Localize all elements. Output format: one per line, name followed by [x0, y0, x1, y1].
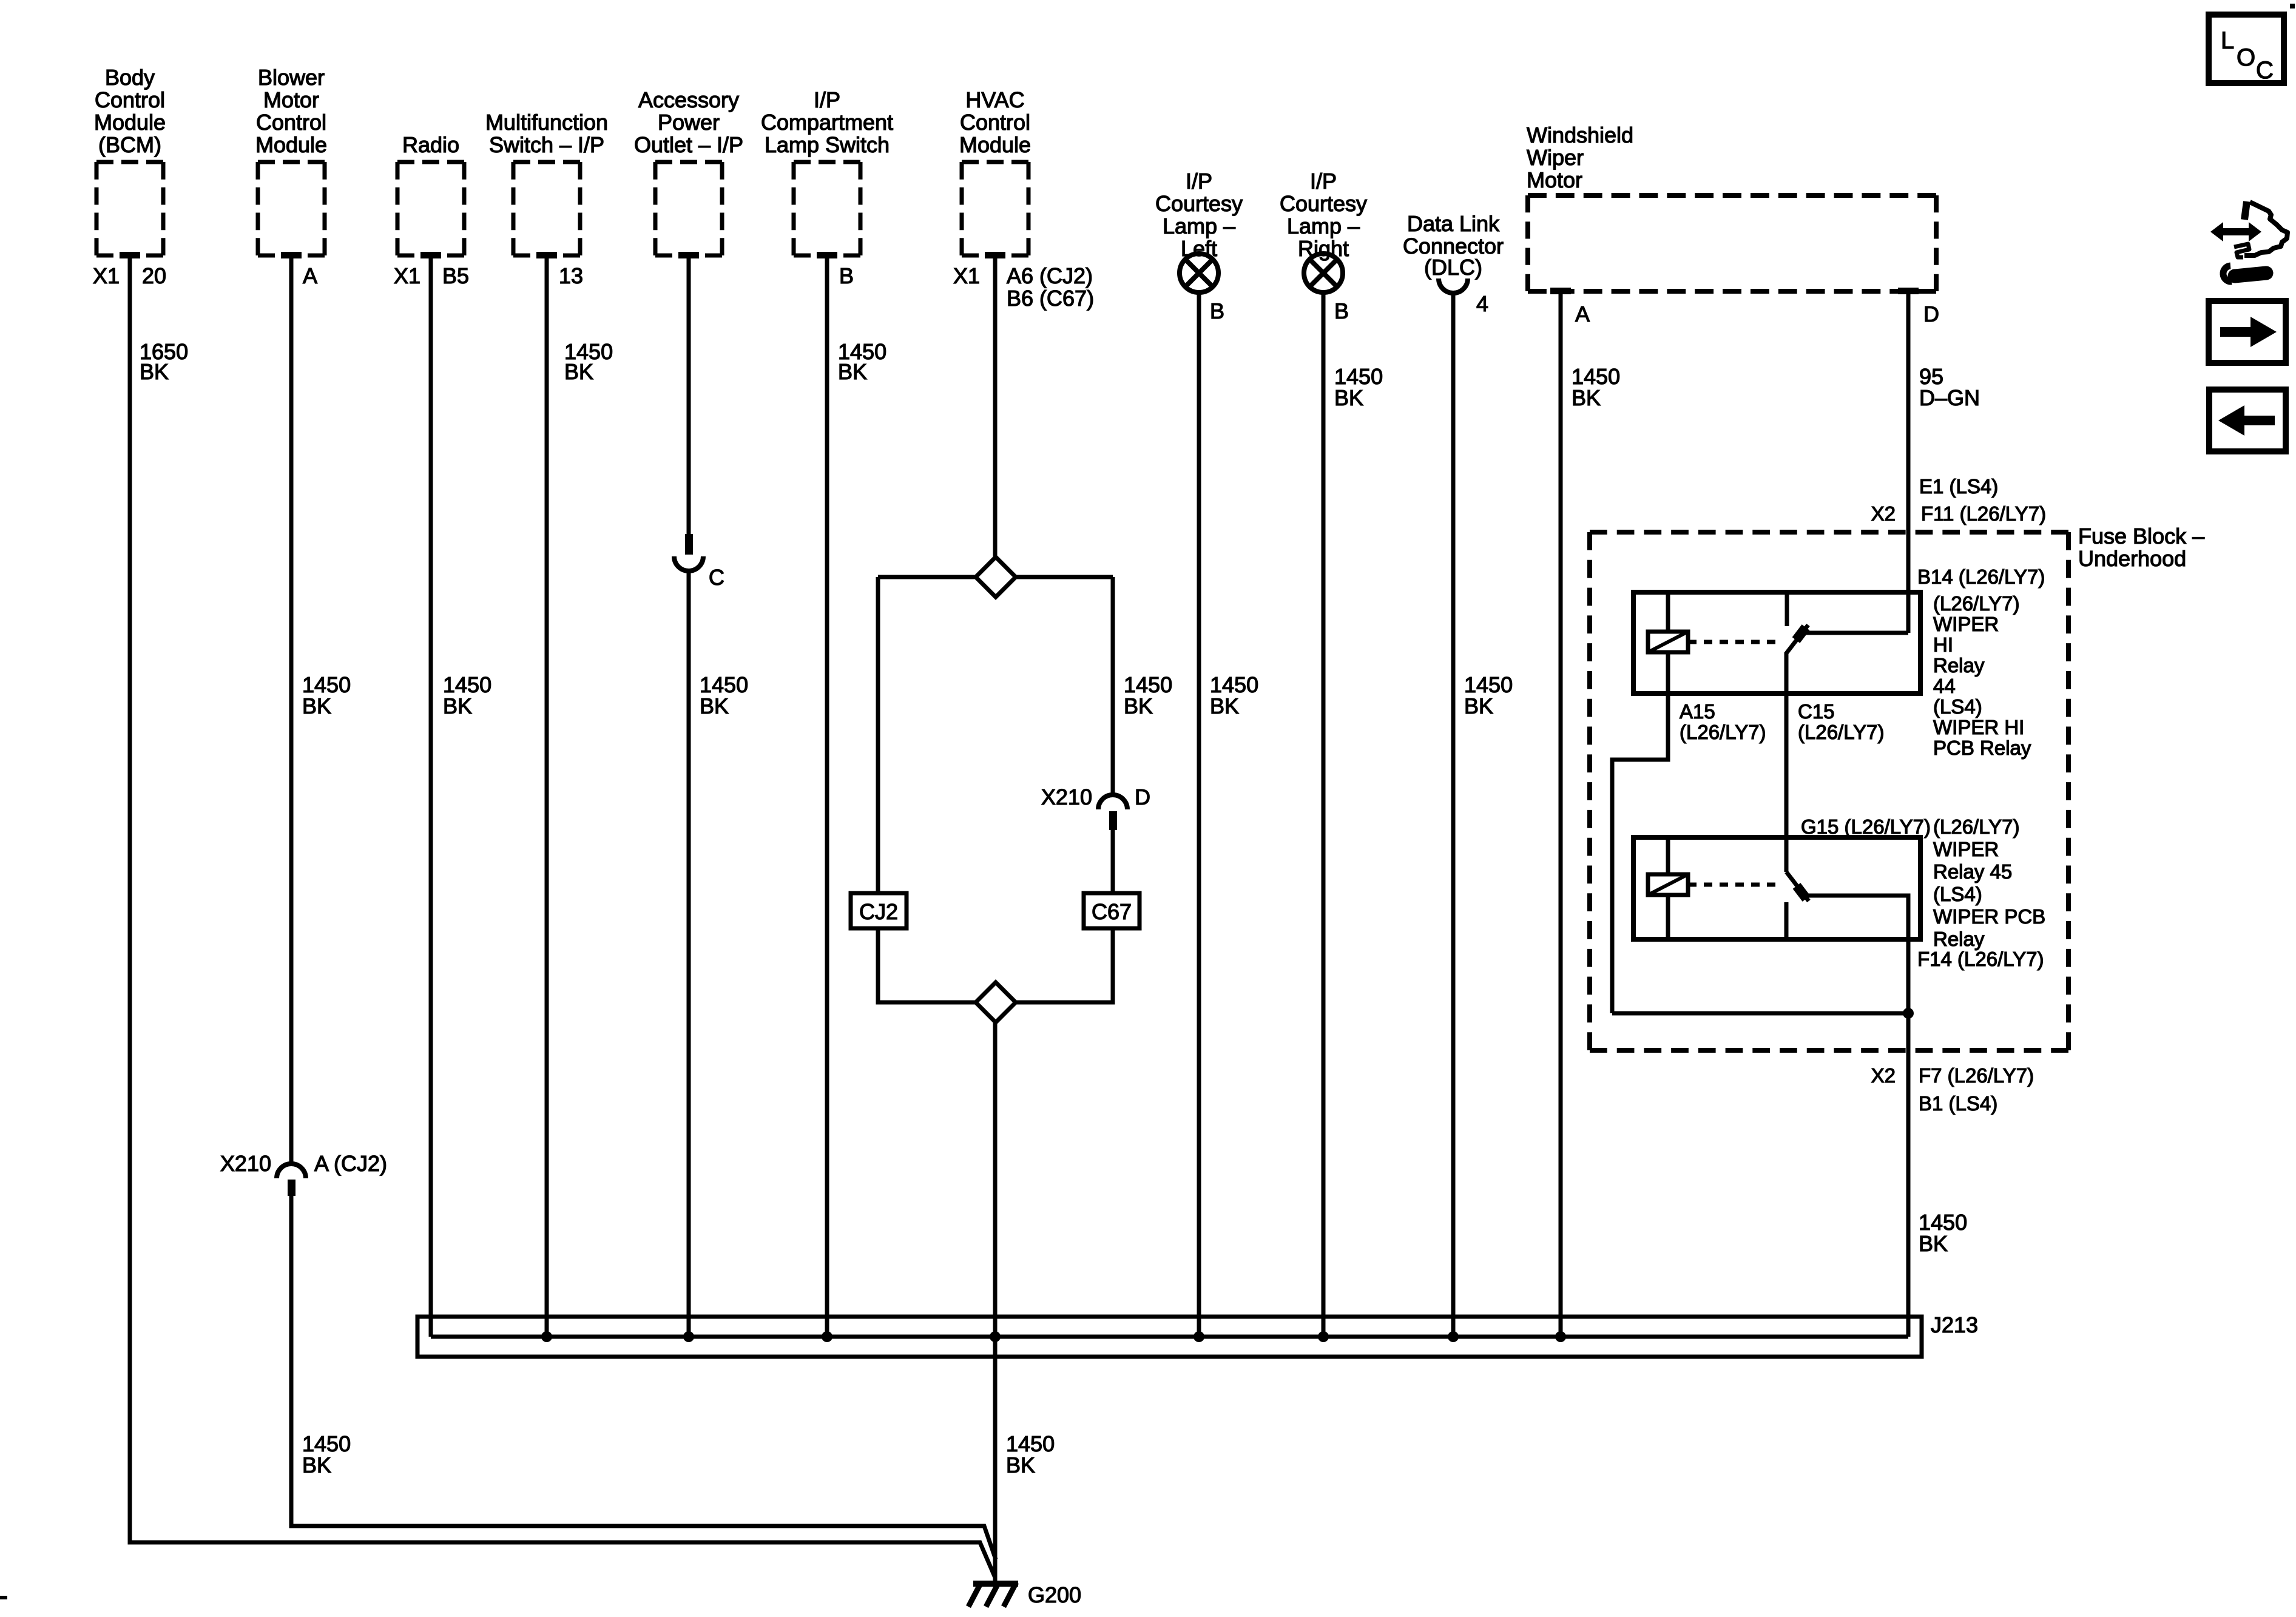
- relay K1: WIPER HI Relay 44 / WIPER HI PCB Relay: [1633, 592, 1920, 694]
- svg-text:Right: Right: [1298, 236, 1349, 261]
- pin B (I/P Compartment Lamp Switch): [839, 263, 854, 288]
- relay K1 coil-contact dashed link: [1688, 640, 1778, 644]
- pin X2 F7 (L26/LY7) B1 (LS4) fuse block exit: [1871, 1064, 2034, 1115]
- svg-text:B: B: [839, 263, 854, 288]
- wire: from HVAC X1 down to splice diamond: [993, 254, 998, 558]
- svg-text:(BCM): (BCM): [98, 132, 161, 157]
- svg-text:HI: HI: [1933, 633, 1953, 656]
- svg-text:20: 20: [142, 263, 166, 288]
- wire: X210 D to connector C67: [1111, 830, 1115, 893]
- svg-text:Body: Body: [105, 65, 155, 90]
- svg-text:Lamp –: Lamp –: [1287, 214, 1360, 238]
- svg-text:Relay 45: Relay 45: [1933, 860, 2012, 883]
- icon: previous page arrow (left): [2209, 390, 2286, 451]
- wire: below C67 to bottom splice: [1016, 928, 1113, 1002]
- svg-text:J213: J213: [1931, 1312, 1978, 1337]
- svg-text:Lamp Switch: Lamp Switch: [765, 132, 890, 157]
- svg-text:(LS4): (LS4): [1933, 883, 1982, 905]
- splice: bottom diamond splice (HVAC ground loop): [976, 982, 1016, 1022]
- svg-text:Lamp –: Lamp –: [1163, 214, 1235, 238]
- svg-text:Windshield: Windshield: [1527, 123, 1633, 147]
- svg-text:D: D: [1135, 785, 1150, 809]
- svg-text:Outlet – I/P: Outlet – I/P: [634, 132, 743, 157]
- svg-text:4: 4: [1476, 291, 1488, 316]
- pin X1 B5 (Radio): [394, 263, 469, 288]
- connector X210 pin A (CJ2) inline connector: [220, 1151, 387, 1196]
- svg-text:BK: BK: [1572, 385, 1601, 410]
- legend: LOC box: [2209, 15, 2284, 84]
- svg-text:CJ2: CJ2: [859, 899, 898, 924]
- svg-text:D: D: [1923, 302, 1939, 326]
- svg-text:X210: X210: [220, 1151, 271, 1176]
- svg-text:X1: X1: [394, 263, 420, 288]
- svg-text:D–GN: D–GN: [1919, 385, 1980, 410]
- wire: 1650 BK from BCM X1-20 to G200: [130, 254, 995, 1584]
- svg-text:BK: BK: [302, 694, 331, 718]
- svg-text:HVAC: HVAC: [965, 87, 1024, 112]
- svg-text:Relay: Relay: [1933, 928, 1985, 950]
- svg-text:BK: BK: [302, 1453, 331, 1477]
- svg-text:Control: Control: [256, 110, 326, 135]
- wire: relay outputs joined (A15 return + F14) with junction: [1612, 1008, 1914, 1019]
- svg-text:Control: Control: [960, 110, 1030, 135]
- pin A (Blower Motor Control Module): [303, 263, 317, 288]
- wire: 1450 BK from Courtesy Lamp Left B to J213: [1194, 292, 1258, 1342]
- svg-text:Fuse Block –: Fuse Block –: [2078, 524, 2204, 549]
- svg-text:Module: Module: [959, 132, 1031, 157]
- wire: 1450 BK from Radio X1-B5 to J213: [431, 254, 491, 1337]
- svg-text:G15 (L26/LY7): G15 (L26/LY7): [1801, 815, 1931, 838]
- svg-text:A15: A15: [1680, 700, 1715, 723]
- pin X1 20 (BCM): [93, 263, 166, 288]
- svg-text:B: B: [1210, 299, 1224, 323]
- connector C inline connector (Accessory Power Outlet): [674, 534, 724, 590]
- svg-text:Motor: Motor: [1527, 167, 1582, 192]
- svg-text:BK: BK: [140, 359, 169, 384]
- svg-text:Multifunction: Multifunction: [485, 110, 608, 135]
- connector CJ2: [851, 893, 907, 928]
- pin B (I/P Courtesy Lamp Left): [1210, 299, 1224, 323]
- splice: top diamond splice (HVAC ground loop): [878, 557, 1113, 597]
- icon: adjust/repair (double arrow, glove, wrench): [2210, 201, 2288, 282]
- svg-text:Wiper: Wiper: [1527, 145, 1584, 170]
- svg-text:BK: BK: [838, 359, 867, 384]
- svg-text:X2: X2: [1871, 502, 1896, 525]
- wire: 1450 BK from Multifunction Switch 13 to J213: [541, 254, 613, 1342]
- svg-text:A: A: [1575, 302, 1590, 326]
- svg-text:(L26/LY7): (L26/LY7): [1680, 721, 1766, 743]
- svg-text:(DLC): (DLC): [1424, 255, 1482, 280]
- module: Blower Motor Control Module: [255, 65, 327, 258]
- wire: right branch (1450 BK) to connector X210 D: [1113, 577, 1172, 795]
- svg-text:(LS4): (LS4): [1933, 695, 1982, 718]
- wire: 95 D-GN from Wiper Motor D to Wiper HI Relay (E1/F11/B14): [1908, 290, 1980, 633]
- ground: G200: [968, 1582, 1081, 1607]
- bus: ground junction J213: [417, 1312, 1978, 1357]
- svg-text:Courtesy: Courtesy: [1155, 191, 1243, 216]
- svg-text:F14 (L26/LY7): F14 (L26/LY7): [1917, 948, 2044, 970]
- svg-text:B: B: [1334, 299, 1349, 323]
- module: Radio: [397, 132, 464, 258]
- lamp: I/P Courtesy Lamp - Left: [1155, 169, 1243, 292]
- pin A15 (L26/LY7) (relay K1 coil): [1680, 700, 1766, 743]
- svg-text:Control: Control: [95, 87, 165, 112]
- relay K2 switch (common stub, armature, NO contact line): [1786, 837, 1908, 1013]
- wire: relay K1 common to C15 pin: [1784, 653, 1789, 837]
- svg-text:BK: BK: [1919, 1231, 1948, 1256]
- svg-text:C: C: [2256, 57, 2274, 84]
- svg-text:A: A: [303, 263, 317, 288]
- connector X210 pin D (C67 side) inline connector: [1041, 785, 1150, 830]
- wire: 1450 BK from Courtesy Lamp Right B to J213: [1318, 292, 1383, 1342]
- svg-text:WIPER HI: WIPER HI: [1933, 716, 2024, 738]
- svg-text:G200: G200: [1028, 1582, 1081, 1607]
- svg-text:Courtesy: Courtesy: [1280, 191, 1367, 216]
- pin E1 (LS4) / X2 F11 (L26/LY7) fuse block entry: [1871, 475, 2046, 525]
- svg-text:Radio: Radio: [402, 132, 459, 157]
- svg-text:F7 (L26/LY7): F7 (L26/LY7): [1919, 1064, 2034, 1087]
- module: Accessory Power Outlet - I/P: [634, 87, 743, 258]
- svg-text:I/P: I/P: [1310, 169, 1337, 194]
- pin A (Windshield Wiper Motor): [1575, 302, 1590, 326]
- svg-text:O: O: [2237, 44, 2255, 71]
- pin G15 (L26/LY7) (relay K2 common): [1801, 815, 1931, 838]
- svg-text:13: 13: [559, 263, 583, 288]
- svg-text:WIPER PCB: WIPER PCB: [1933, 905, 2045, 928]
- svg-text:X210: X210: [1041, 785, 1092, 809]
- svg-text:Blower: Blower: [258, 65, 325, 90]
- module: Windshield Wiper Motor: [1527, 123, 1936, 294]
- wire: 1450 BK from bottom splice through J213 to G200: [990, 1022, 1055, 1584]
- icon: next page arrow (right): [2209, 301, 2286, 363]
- svg-text:C15: C15: [1798, 700, 1835, 723]
- pin F14 (L26/LY7) (relay K2 output): [1917, 948, 2044, 970]
- svg-text:BK: BK: [443, 694, 472, 718]
- svg-text:C: C: [709, 565, 724, 590]
- svg-text:44: 44: [1933, 675, 1956, 697]
- wire: from Accessory Power Outlet to connector C: [687, 254, 691, 535]
- wire: 1450 BK from connector C to J213: [683, 571, 748, 1342]
- wire: 1450 BK from fuse block F7/B1 to J213: [1908, 1013, 1967, 1337]
- wire: A15 coil return jog: [1612, 694, 1668, 1013]
- svg-text:A6 (CJ2): A6 (CJ2): [1007, 263, 1093, 288]
- svg-text:Underhood: Underhood: [2078, 546, 2186, 571]
- svg-text:B6 (C67): B6 (C67): [1007, 286, 1094, 311]
- svg-text:X2: X2: [1871, 1064, 1896, 1087]
- wire: below CJ2 to bottom splice: [878, 928, 976, 1002]
- wire: 1450 BK from DLC 4 to J213: [1448, 293, 1513, 1342]
- svg-text:Compartment: Compartment: [761, 110, 893, 135]
- svg-text:BK: BK: [1006, 1453, 1035, 1477]
- pin B (I/P Courtesy Lamp Right): [1334, 299, 1349, 323]
- pin B14 (L26/LY7) (Wiper HI Relay): [1917, 565, 2045, 588]
- block: Fuse Block - Underhood (dashed boundary): [1590, 524, 2204, 1050]
- relay K1 switch (NC stub, armature, NO contact line): [1786, 592, 1908, 654]
- svg-text:(L26/LY7): (L26/LY7): [1933, 815, 2019, 838]
- wire: 1450 BK from X210 to G200 (blower branch): [291, 672, 996, 1559]
- wire: 1450 BK from Lamp Switch B to J213: [822, 254, 886, 1342]
- svg-text:E1 (LS4): E1 (LS4): [1919, 475, 1998, 498]
- pin D (Windshield Wiper Motor): [1923, 302, 1939, 326]
- svg-text:Accessory: Accessory: [638, 87, 739, 112]
- connector C67: [1084, 893, 1140, 928]
- pin 13 (Multifunction Switch): [559, 263, 583, 288]
- module: HVAC Control Module: [959, 87, 1031, 258]
- svg-text:Module: Module: [255, 132, 327, 157]
- svg-text:BK: BK: [1464, 694, 1493, 718]
- pin X1 A6 (CJ2) B6 (C67) (HVAC Control Module): [953, 263, 1094, 311]
- svg-text:L: L: [2221, 27, 2234, 54]
- svg-text:WIPER: WIPER: [1933, 613, 1999, 635]
- svg-text:I/P: I/P: [814, 87, 840, 112]
- svg-text:(L26/LY7): (L26/LY7): [1798, 721, 1884, 743]
- svg-text:B1 (LS4): B1 (LS4): [1919, 1092, 1997, 1115]
- svg-text:(L26/LY7): (L26/LY7): [1933, 592, 2019, 615]
- svg-text:BK: BK: [1124, 694, 1153, 718]
- relay K2: WIPER Relay 45 / WIPER PCB Relay: [1633, 837, 1920, 939]
- svg-text:B5: B5: [442, 263, 469, 288]
- svg-text:BK: BK: [1334, 385, 1363, 410]
- wire: left branch to connector CJ2: [876, 577, 880, 893]
- svg-text:C67: C67: [1092, 899, 1132, 924]
- svg-text:X1: X1: [93, 263, 120, 288]
- svg-text:BK: BK: [1210, 694, 1239, 718]
- svg-text:PCB Relay: PCB Relay: [1933, 737, 2031, 759]
- svg-text:X1: X1: [953, 263, 980, 288]
- label: relay K2 names (L26/LY7) WIPER Relay 45 / (LS4) WIPER PCB Relay: [1933, 815, 2045, 950]
- svg-text:Motor: Motor: [263, 87, 319, 112]
- module: Multifunction Switch - I/P: [485, 110, 608, 258]
- svg-text:F11 (L26/LY7): F11 (L26/LY7): [1921, 502, 2046, 525]
- svg-text:I/P: I/P: [1186, 169, 1212, 194]
- module: I/P Compartment Lamp Switch: [761, 87, 893, 258]
- module: Body Control Module (BCM): [94, 65, 166, 258]
- label: relay K1 names (L26/LY7) WIPER HI Relay 44 / (LS4) WIPER HI PCB Relay: [1933, 592, 2031, 759]
- svg-text:Data Link: Data Link: [1407, 211, 1500, 236]
- relay K2 coil: [1648, 837, 1688, 939]
- svg-text:A (CJ2): A (CJ2): [314, 1151, 387, 1176]
- svg-text:Relay: Relay: [1933, 654, 1985, 677]
- svg-text:Switch – I/P: Switch – I/P: [489, 132, 604, 157]
- pin C15 (L26/LY7) (relay K1 common): [1798, 700, 1884, 743]
- svg-text:B14 (L26/LY7): B14 (L26/LY7): [1917, 565, 2045, 588]
- relay K1 coil: [1648, 592, 1688, 694]
- relay K2 coil-contact dashed link: [1688, 883, 1778, 887]
- svg-text:Power: Power: [658, 110, 720, 135]
- pin 4 (DLC): [1476, 291, 1488, 316]
- svg-text:Module: Module: [94, 110, 166, 135]
- wire: 1450 BK from Wiper Motor A to J213: [1555, 290, 1620, 1342]
- connector: Data Link Connector (DLC): [1403, 211, 1504, 293]
- svg-text:WIPER: WIPER: [1933, 838, 1999, 860]
- svg-text:BK: BK: [564, 359, 593, 384]
- lamp: I/P Courtesy Lamp - Right: [1280, 169, 1367, 292]
- wire: 1450 BK from Blower Motor A to connector X210: [289, 254, 294, 1164]
- svg-text:BK: BK: [700, 694, 729, 718]
